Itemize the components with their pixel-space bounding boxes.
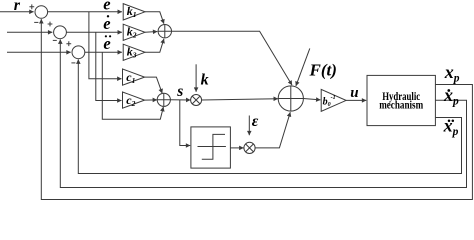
wire edot branch to c2: [96, 32, 122, 100]
svg-text:k3: k3: [127, 45, 137, 60]
wire xp output feedback loop: [41, 19, 472, 199]
wire k2 to sum K: [145, 31, 157, 34]
wire S1 to k1 (e): [48, 11, 122, 13]
relay symbol: [198, 134, 226, 159]
svg-text:k2: k2: [127, 25, 137, 40]
wire M1 to big sum: [202, 99, 278, 100]
wire eddot branch to sum C bottom: [102, 52, 163, 119]
svg-text:k: k: [201, 71, 209, 88]
wire e branch to c1: [89, 12, 122, 79]
wire epsilon input arrow: [248, 116, 250, 136]
summing junction S2: [54, 26, 67, 39]
gain k1: [123, 4, 145, 20]
wire c2 to sum C: [145, 99, 157, 101]
summing junction S1: [35, 6, 48, 19]
svg-text:r: r: [14, 0, 21, 14]
wire c1 to sum C: [145, 77, 163, 93]
wire k input arrow: [195, 64, 197, 92]
gain b0 inverse: [321, 89, 346, 111]
wire xp ddot output feedback loop: [78, 60, 461, 174]
svg-text:ε: ε: [252, 113, 259, 130]
svg-text:xp: xp: [444, 62, 460, 85]
svg-text:c1: c1: [126, 70, 135, 85]
svg-text:mechanism: mechanism: [379, 100, 423, 112]
svg-text:e: e: [103, 14, 110, 33]
wire s output to multiplier M1: [170, 99, 190, 101]
wire F(t) disturbance arrow: [296, 48, 310, 86]
relay block: [191, 127, 231, 168]
summing junction K (crossed circle): [158, 25, 171, 38]
minus sign S2: [53, 39, 57, 41]
multiplier M2 (times epsilon): [244, 142, 255, 153]
svg-text:k1: k1: [127, 4, 137, 19]
big summing junction: [278, 86, 303, 111]
wire r input: [0, 11, 34, 13]
wire u to hydraulic box: [346, 99, 366, 101]
wire sum K to big sum: [172, 31, 293, 85]
svg-text:xp: xp: [443, 85, 459, 108]
minus sign S3: [71, 62, 75, 64]
svg-text:xp: xp: [443, 116, 459, 139]
wire k3 to sum K: [145, 39, 164, 53]
svg-text:e: e: [103, 0, 110, 14]
gain c2: [123, 92, 145, 108]
plus sign S2: [48, 22, 53, 27]
plus sign S1: [29, 4, 34, 9]
svg-text:c2: c2: [126, 93, 135, 108]
plus sign S3: [66, 41, 71, 46]
wire k1 to sum K: [145, 12, 164, 24]
summing junction C (crossed circle): [157, 93, 170, 106]
hydraulic mechanism block: [367, 75, 435, 125]
wire input 3: [7, 51, 71, 53]
wire input 2: [7, 31, 52, 33]
wire xp dot output feedback loop: [60, 40, 466, 188]
wire big sum to gain b0: [303, 99, 320, 100]
summing junction S3: [72, 46, 85, 59]
minus sign S1: [34, 21, 38, 23]
wire S2 to k2 (edot): [66, 31, 122, 33]
gain k2: [123, 24, 145, 40]
svg-text:F(t): F(t): [309, 61, 337, 80]
wire S3 to k3 (eddot): [85, 51, 122, 53]
wire relay to multiplier M2: [230, 147, 243, 149]
wire M2 to big sum bottom: [255, 112, 290, 148]
gain c1: [123, 69, 145, 85]
multiplier M1 (s times k): [191, 95, 202, 106]
svg-text:s: s: [176, 83, 183, 100]
svg-text:u: u: [350, 85, 358, 101]
gain k3: [123, 44, 145, 60]
wire s branch to relay: [180, 100, 190, 146]
